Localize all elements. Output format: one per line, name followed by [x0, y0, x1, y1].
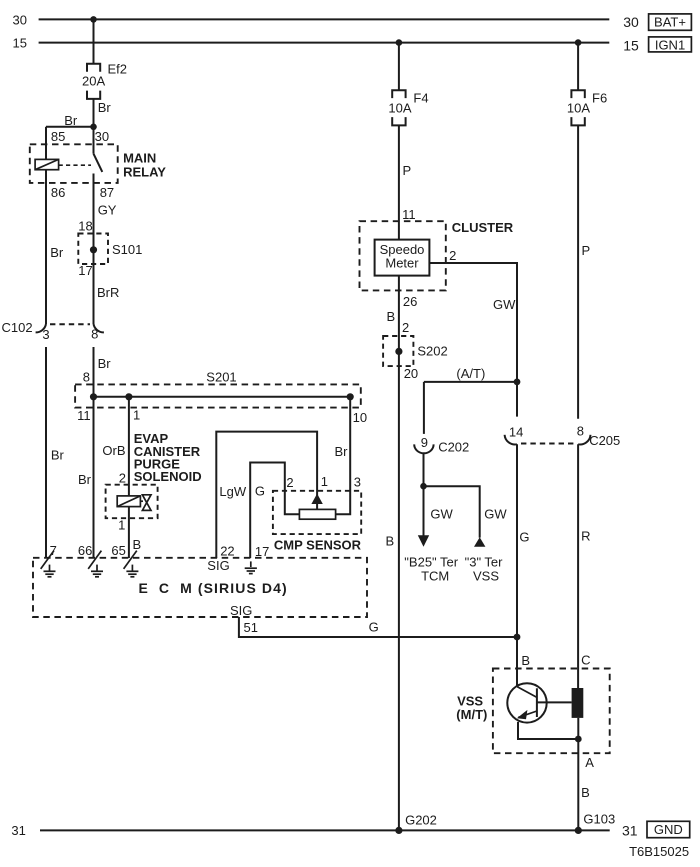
svg-text:8: 8	[91, 327, 98, 342]
svg-text:87: 87	[100, 185, 114, 200]
svg-text:11: 11	[77, 408, 91, 423]
svg-text:GY: GY	[98, 202, 117, 217]
svg-text:8: 8	[577, 424, 584, 439]
svg-text:B: B	[387, 309, 396, 324]
svg-text:GND: GND	[654, 822, 683, 837]
svg-text:RELAY: RELAY	[123, 165, 166, 180]
svg-text:C202: C202	[438, 439, 469, 454]
svg-text:(A/T): (A/T)	[456, 366, 485, 381]
svg-text:Ef2: Ef2	[108, 62, 128, 77]
svg-text:3: 3	[354, 475, 361, 490]
svg-text:SOLENOID: SOLENOID	[134, 469, 202, 484]
svg-text:VSS: VSS	[473, 569, 499, 584]
svg-text:Br: Br	[98, 356, 112, 371]
svg-text:18: 18	[78, 219, 92, 234]
svg-text:S101: S101	[112, 242, 142, 257]
svg-text:S202: S202	[417, 344, 447, 359]
svg-text:"3" Ter: "3" Ter	[465, 554, 504, 569]
svg-text:C: C	[581, 652, 590, 667]
svg-text:CMP SENSOR: CMP SENSOR	[274, 538, 362, 553]
svg-text:R: R	[581, 529, 590, 544]
svg-text:Br: Br	[78, 472, 92, 487]
svg-text:8: 8	[83, 369, 90, 384]
svg-text:G: G	[369, 620, 379, 635]
svg-text:65: 65	[111, 543, 125, 558]
svg-text:66: 66	[78, 543, 92, 558]
svg-text:20A: 20A	[82, 74, 105, 89]
svg-text:1: 1	[321, 474, 328, 489]
svg-text:Br: Br	[50, 245, 64, 260]
svg-text:BrR: BrR	[97, 285, 119, 300]
svg-text:GW: GW	[493, 297, 516, 312]
svg-text:G202: G202	[405, 813, 437, 828]
svg-text:S201: S201	[206, 369, 236, 384]
svg-text:GW: GW	[430, 507, 453, 522]
svg-text:10: 10	[353, 410, 367, 425]
svg-text:OrB: OrB	[102, 443, 125, 458]
svg-text:C102: C102	[2, 320, 33, 335]
svg-text:Meter: Meter	[385, 256, 419, 271]
svg-text:26: 26	[403, 294, 417, 309]
svg-text:LgW: LgW	[219, 484, 246, 499]
svg-text:1: 1	[118, 518, 125, 533]
svg-text:30: 30	[95, 129, 109, 144]
svg-text:C205: C205	[589, 433, 620, 448]
svg-text:9: 9	[421, 435, 428, 450]
svg-text:G: G	[255, 484, 265, 499]
svg-text:E C M (SIRIUS D4): E C M (SIRIUS D4)	[139, 580, 288, 596]
svg-text:30: 30	[13, 12, 27, 27]
svg-text:Br: Br	[98, 100, 112, 115]
svg-text:31: 31	[622, 822, 638, 838]
svg-text:T6B15025: T6B15025	[629, 844, 689, 859]
svg-text:F6: F6	[592, 91, 607, 106]
svg-text:15: 15	[623, 37, 639, 53]
svg-text:MAIN: MAIN	[123, 150, 156, 165]
svg-text:B: B	[386, 534, 395, 549]
svg-text:B: B	[133, 537, 142, 552]
svg-text:Br: Br	[335, 444, 349, 459]
svg-text:22: 22	[220, 544, 234, 559]
svg-text:SIG: SIG	[207, 558, 229, 573]
svg-text:2: 2	[449, 248, 456, 263]
svg-text:P: P	[403, 163, 412, 178]
svg-text:51: 51	[244, 620, 258, 635]
svg-text:SIG: SIG	[230, 603, 252, 618]
svg-text:2: 2	[402, 320, 409, 335]
svg-text:IGN1: IGN1	[655, 37, 685, 52]
svg-text:BAT+: BAT+	[654, 15, 686, 30]
svg-text:CLUSTER: CLUSTER	[452, 220, 514, 235]
svg-text:GW: GW	[484, 507, 507, 522]
svg-text:11: 11	[402, 207, 416, 222]
svg-text:14: 14	[509, 425, 523, 440]
svg-text:31: 31	[11, 823, 25, 838]
svg-text:A: A	[585, 755, 594, 770]
svg-text:20: 20	[404, 366, 418, 381]
svg-text:F4: F4	[413, 91, 428, 106]
svg-text:Br: Br	[64, 113, 78, 128]
svg-text:G103: G103	[583, 811, 615, 826]
svg-text:2: 2	[286, 475, 293, 490]
svg-text:2: 2	[119, 471, 126, 486]
svg-text:17: 17	[255, 544, 269, 559]
svg-text:(M/T): (M/T)	[456, 707, 487, 722]
svg-text:P: P	[582, 243, 591, 258]
svg-text:86: 86	[51, 185, 65, 200]
svg-text:B: B	[521, 653, 530, 668]
svg-text:B: B	[581, 785, 590, 800]
svg-text:10A: 10A	[567, 101, 590, 116]
svg-text:10A: 10A	[388, 101, 411, 116]
svg-text:85: 85	[51, 129, 65, 144]
svg-text:1: 1	[133, 408, 140, 423]
svg-text:3: 3	[42, 327, 49, 342]
svg-text:Br: Br	[51, 447, 65, 462]
svg-text:"B25" Ter: "B25" Ter	[404, 554, 458, 569]
svg-text:TCM: TCM	[421, 569, 449, 584]
svg-text:17: 17	[78, 263, 92, 278]
svg-text:30: 30	[623, 14, 639, 30]
svg-text:15: 15	[13, 35, 27, 50]
svg-text:G: G	[519, 530, 529, 545]
